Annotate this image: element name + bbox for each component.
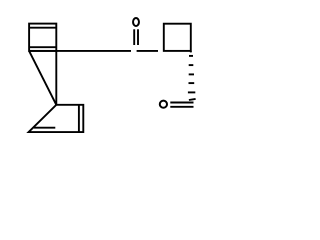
hashed wedge dash 3 xyxy=(189,73,194,75)
hashed wedge dash 1 xyxy=(189,55,193,57)
hashed wedge dash 5 xyxy=(188,91,195,93)
ring A inner top double-bond line xyxy=(29,27,56,29)
ring B inner right double-bond line xyxy=(78,105,80,132)
ring A (top-left cyclobutadiene, drawn as square) xyxy=(29,24,56,51)
ring C (cyclobutane square) xyxy=(164,24,191,51)
atom O2 label (bottom aldehyde oxygen) xyxy=(160,101,167,108)
chain bond from ring A to carbonyl C1 (collinear with ring A bottom edge) xyxy=(29,50,131,52)
chain bond carbonyl C1 to ring C xyxy=(137,50,158,52)
ring B inner bottom double-bond line xyxy=(34,127,56,129)
ring C corner nub (hashed wedge start) xyxy=(190,51,192,53)
wire bond vertical from ring A corner to vertex V xyxy=(55,51,57,105)
carbonyl C1=O double bond left line xyxy=(133,29,135,45)
hashed wedge dash 2 xyxy=(189,64,194,66)
carbonyl C1=O double bond right line xyxy=(137,29,139,45)
wire bond diagonal from ring A corner to vertex V xyxy=(29,51,56,105)
carbonyl C2=O double bond upper line xyxy=(170,102,193,104)
hashed wedge dash 4 xyxy=(189,82,195,84)
ring B (bottom cyclobutadiene trapezoid) xyxy=(29,105,84,132)
ring A inner bottom double-bond line xyxy=(29,46,56,48)
hashed wedge dash 6 (tilted, above carbonyl) xyxy=(189,99,196,100)
atom O1 label (top carbonyl oxygen) xyxy=(133,18,139,26)
carbonyl C2=O double bond lower line xyxy=(170,106,193,108)
